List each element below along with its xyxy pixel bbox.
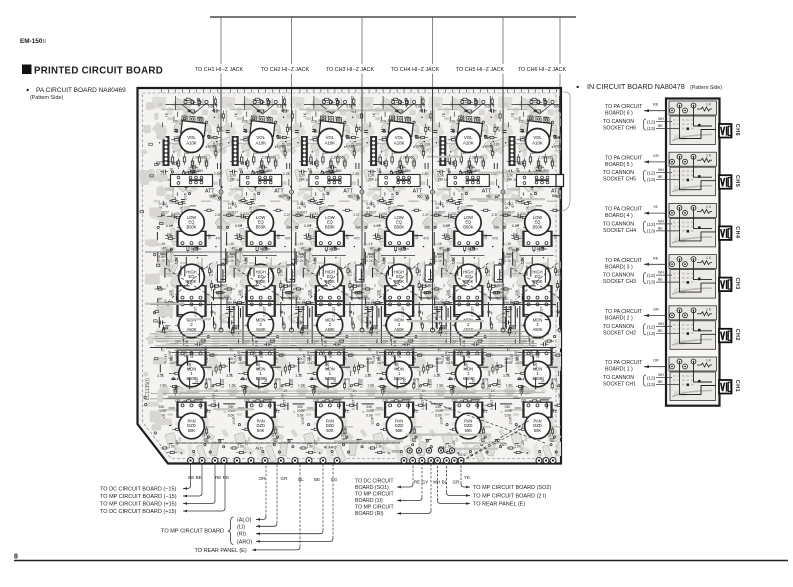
- svg-text:SOCKET CH1: SOCKET CH1: [603, 382, 636, 388]
- svg-text:TO DC CIRCUIT BOARD (+15): TO DC CIRCUIT BOARD (+15): [100, 509, 177, 515]
- svg-text:SO1: SO1: [392, 449, 401, 454]
- svg-text:YE: YE: [653, 205, 659, 209]
- svg-text:PRINTED CIRCUIT BOARD: PRINTED CIRCUIT BOARD: [34, 66, 163, 77]
- svg-text:BE: BE: [658, 175, 663, 179]
- svg-text:GR: GR: [653, 154, 659, 158]
- svg-text:YE: YE: [425, 194, 430, 198]
- svg-text:BE: BE: [658, 226, 663, 230]
- svg-text:8: 8: [14, 554, 18, 561]
- svg-text:CH6: CH6: [734, 124, 740, 136]
- svg-text:OZT: OZT: [500, 443, 508, 447]
- svg-text:BOARD( 6 ): BOARD( 6 ): [605, 111, 633, 117]
- svg-text:BOARD (RI): BOARD (RI): [355, 511, 384, 517]
- svg-text:TO CANNON: TO CANNON: [603, 119, 634, 125]
- svg-text:TO CH4 HI−Z JACK: TO CH4 HI−Z JACK: [391, 67, 440, 73]
- svg-text:1 K: 1 K: [706, 359, 712, 363]
- svg-text:(Pattern Side): (Pattern Side): [30, 95, 63, 101]
- svg-text:(13): (13): [647, 331, 656, 336]
- svg-text:TO MP CIRCUIT: TO MP CIRCUIT: [355, 492, 395, 498]
- svg-text:TO CH1 HI−Z JACK: TO CH1 HI−Z JACK: [195, 67, 244, 73]
- svg-text:BOARD( 2 ): BOARD( 2 ): [605, 316, 633, 322]
- svg-text:1 K: 1 K: [706, 103, 712, 107]
- svg-text:TO CH2 HI−Z JACK: TO CH2 HI−Z JACK: [261, 67, 310, 73]
- svg-text:LC1135(I): LC1135(I): [145, 378, 151, 400]
- svg-text:IN CIRCUIT BOARD NA80478: IN CIRCUIT BOARD NA80478: [587, 82, 685, 91]
- svg-text:SOCKET CH2: SOCKET CH2: [603, 330, 636, 336]
- svg-text:GR: GR: [653, 308, 659, 312]
- svg-text:RE: RE: [653, 103, 659, 107]
- svg-text:(13): (13): [647, 126, 656, 131]
- svg-text:TO CH5 HI−Z JACK: TO CH5 HI−Z JACK: [456, 67, 505, 73]
- svg-text:TO DC CIRCUIT BOARD (−15): TO DC CIRCUIT BOARD (−15): [100, 487, 177, 493]
- svg-text:BOARD( 3 ): BOARD( 3 ): [605, 264, 633, 270]
- svg-text:BL: BL: [298, 477, 304, 482]
- svg-text:1 K: 1 K: [706, 154, 712, 158]
- svg-text:GR: GR: [453, 480, 461, 485]
- svg-text:SO2: SO2: [458, 452, 467, 457]
- svg-text:CH3: CH3: [734, 277, 740, 289]
- svg-text:WH: WH: [658, 168, 664, 172]
- svg-text:RE RE: RE RE: [215, 475, 229, 480]
- svg-text:TO PA CIRCUIT: TO PA CIRCUIT: [605, 207, 643, 213]
- svg-text:BR: BR: [213, 194, 218, 198]
- svg-text:TO REAR PANEL (E): TO REAR PANEL (E): [195, 548, 247, 554]
- svg-text:(ALO): (ALO): [237, 517, 252, 523]
- svg-text:SG: SG: [331, 477, 338, 482]
- svg-text:(12): (12): [647, 222, 656, 227]
- svg-text:BOARD( 1 ): BOARD( 1 ): [605, 367, 633, 373]
- svg-text:1 K: 1 K: [706, 256, 712, 260]
- svg-text:TO DC CIRCUIT: TO DC CIRCUIT: [355, 479, 394, 485]
- svg-text:TO MP CIRCUIT: TO MP CIRCUIT: [355, 505, 395, 511]
- svg-text:(LI): (LI): [237, 524, 245, 530]
- svg-text:II: II: [43, 39, 46, 45]
- svg-text:BOARD( 4 ): BOARD( 4 ): [605, 213, 633, 219]
- svg-text:TO CANNON: TO CANNON: [603, 273, 634, 279]
- svg-text:(12): (12): [647, 171, 656, 176]
- svg-text:TO REAR PANEL (E): TO REAR PANEL (E): [473, 502, 525, 508]
- svg-text:CH1: CH1: [734, 380, 740, 392]
- svg-text:TO CANNON: TO CANNON: [603, 170, 634, 176]
- svg-text:(13): (13): [647, 382, 656, 387]
- svg-text:(12): (12): [647, 120, 656, 125]
- svg-text:(Pattern Side): (Pattern Side): [690, 85, 722, 91]
- svg-text:SOCKET CH5: SOCKET CH5: [603, 177, 636, 183]
- svg-text:CH4: CH4: [734, 226, 740, 238]
- svg-text:TO CANNON: TO CANNON: [603, 375, 634, 381]
- svg-text:CH2: CH2: [734, 329, 740, 341]
- svg-text:TO CANNON: TO CANNON: [603, 324, 634, 330]
- svg-text:RE: RE: [653, 256, 659, 260]
- svg-text:BOARD (1I): BOARD (1I): [355, 498, 383, 504]
- svg-text:TO PA CIRCUIT: TO PA CIRCUIT: [605, 155, 643, 161]
- svg-text:PA CIRCUIT BOARD NA80469: PA CIRCUIT BOARD NA80469: [36, 87, 126, 94]
- svg-text:TO PA CIRCUIT: TO PA CIRCUIT: [605, 309, 643, 315]
- svg-text:GR: GR: [281, 476, 289, 481]
- svg-text:WH: WH: [658, 373, 664, 377]
- svg-text:TO CH6 HI−Z JACK: TO CH6 HI−Z JACK: [518, 67, 567, 73]
- svg-text:TO MP CIRCUIT BOARD (SO2): TO MP CIRCUIT BOARD (SO2): [473, 485, 551, 491]
- svg-text:(13): (13): [647, 177, 656, 182]
- svg-text:SOCKET CH3: SOCKET CH3: [603, 279, 636, 285]
- svg-text:BOARD (SO1): BOARD (SO1): [355, 485, 389, 491]
- svg-text:(12): (12): [647, 273, 656, 278]
- svg-text:OR: OR: [259, 476, 267, 481]
- svg-text:SOCKET CH6: SOCKET CH6: [603, 126, 636, 132]
- svg-text:●: ●: [26, 88, 29, 94]
- svg-text:TO MP CIRCUIT BOARD (+15): TO MP CIRCUIT BOARD (+15): [100, 502, 177, 508]
- svg-text:TO MP CIRCUIT BOARD (−15): TO MP CIRCUIT BOARD (−15): [100, 494, 177, 500]
- svg-text:(12): (12): [647, 376, 656, 381]
- svg-text:BE: BE: [314, 477, 320, 482]
- svg-text:TO CH3 HI−Z JACK: TO CH3 HI−Z JACK: [326, 67, 375, 73]
- svg-text:OR: OR: [354, 194, 360, 198]
- svg-text:OPX: OPX: [516, 425, 524, 429]
- svg-text:EM-150: EM-150: [20, 38, 43, 45]
- svg-text:RE: RE: [284, 194, 290, 198]
- svg-text:GR: GR: [495, 194, 501, 198]
- svg-text:BE: BE: [658, 380, 663, 384]
- svg-text:TO MP CIRCUIT BOARD (2 I): TO MP CIRCUIT BOARD (2 I): [473, 494, 547, 500]
- svg-text:BE: BE: [552, 194, 557, 198]
- svg-text:1 K: 1 K: [706, 205, 712, 209]
- svg-text:TO MP CIRCUIT BOARD: TO MP CIRCUIT BOARD: [161, 529, 224, 535]
- svg-text:TO PA CIRCUIT: TO PA CIRCUIT: [605, 360, 643, 366]
- svg-text:BE: BE: [658, 329, 663, 333]
- svg-text:OR: OR: [653, 359, 659, 363]
- svg-text:BOARD( 5 ): BOARD( 5 ): [605, 162, 633, 168]
- svg-text:WH BL: WH BL: [433, 480, 448, 485]
- svg-text:(ARO): (ARO): [237, 539, 252, 545]
- svg-text:TO PA CIRCUIT: TO PA CIRCUIT: [605, 258, 643, 264]
- svg-text:(13): (13): [647, 228, 656, 233]
- svg-text:WH: WH: [658, 117, 664, 121]
- svg-text:1 K: 1 K: [706, 307, 712, 311]
- svg-text:TO CANNON: TO CANNON: [603, 221, 634, 227]
- svg-text:YE: YE: [464, 475, 470, 480]
- svg-text:ALO: ALO: [255, 447, 263, 451]
- svg-text:TO PA CIRCUIT: TO PA CIRCUIT: [605, 104, 643, 110]
- svg-text:WH: WH: [658, 322, 664, 326]
- svg-text:(RI): (RI): [237, 532, 246, 538]
- svg-text:(12): (12): [647, 324, 656, 329]
- svg-text:WH: WH: [658, 219, 664, 223]
- svg-text:RI ARO: RI ARO: [324, 446, 337, 450]
- svg-text:BE: BE: [658, 124, 663, 128]
- svg-text:BE: BE: [658, 278, 663, 282]
- svg-text:(13): (13): [647, 280, 656, 285]
- svg-text:●: ●: [576, 85, 579, 91]
- svg-text:CH5: CH5: [734, 175, 740, 187]
- svg-text:RE GY: RE GY: [414, 480, 428, 485]
- svg-text:WH: WH: [658, 271, 664, 275]
- svg-text:SOCKET CH4: SOCKET CH4: [603, 228, 636, 234]
- svg-text:22: 22: [444, 449, 448, 453]
